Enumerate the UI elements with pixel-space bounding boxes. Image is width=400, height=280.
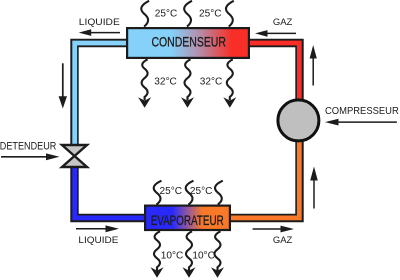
flow arrow: liquid out of condenser (top left, points left) bbox=[79, 29, 120, 36]
flow arrow: detendeur pointer (points right) bbox=[1, 153, 60, 160]
svg-text:EVAPORATEUR: EVAPORATEUR bbox=[151, 212, 224, 228]
wire: liquid line condenser to expansion valve (light blue) bbox=[75, 43, 129, 150]
value label 25°C condenser air-in left bbox=[155, 9, 178, 20]
flow arrow: gas into condenser (top right, points left) bbox=[255, 30, 296, 37]
svg-text:LIQUIDE: LIQUIDE bbox=[79, 17, 120, 28]
heat flow squiggle: condenser air-in middle bbox=[184, 1, 192, 27]
value label 32°C condenser air-out right bbox=[200, 77, 223, 88]
flow arrow: up right pipe below compressor bbox=[310, 167, 318, 209]
compressor COMPRESSEUR (circle symbol) bbox=[278, 100, 319, 141]
label LIQUIDE (top) bbox=[79, 17, 120, 28]
value label 25°C condenser air-in right bbox=[199, 9, 222, 20]
svg-text:10°C: 10°C bbox=[192, 250, 215, 261]
heat flow arrow: evaporator air-out right bbox=[211, 231, 224, 277]
label DETENDEUR bbox=[0, 141, 56, 153]
heat flow squiggle: condenser air-in right bbox=[226, 1, 234, 27]
svg-text:COMPRESSEUR: COMPRESSEUR bbox=[325, 106, 399, 117]
wire: expanded liquid line valve to evaporator (dark blue) bbox=[75, 162, 147, 218]
heat flow squiggle: condenser air-in left bbox=[141, 1, 149, 27]
flow arrow: compresseur pointer (points left) bbox=[325, 119, 397, 126]
label GAZ (bottom) bbox=[273, 235, 293, 246]
svg-text:25°C: 25°C bbox=[199, 9, 222, 20]
heat flow arrow: evaporator air-out left bbox=[151, 231, 164, 277]
expansion valve DETENDEUR (bowtie symbol) bbox=[62, 145, 87, 167]
svg-text:GAZ: GAZ bbox=[273, 17, 293, 28]
heat flow arrow: evaporator air-out middle bbox=[183, 231, 196, 277]
svg-text:25°C: 25°C bbox=[160, 186, 183, 197]
flow arrow: up right pipe above compressor bbox=[310, 45, 317, 86]
svg-text:GAZ: GAZ bbox=[273, 235, 293, 246]
svg-text:25°C: 25°C bbox=[155, 9, 178, 20]
label COMPRESSEUR bbox=[325, 106, 399, 117]
svg-text:32°C: 32°C bbox=[154, 77, 177, 88]
heat flow squiggle: evaporator air-in left bbox=[154, 181, 162, 205]
label LIQUIDE (bottom) bbox=[78, 235, 118, 246]
evaporator heat exchanger EVAPORATEUR bbox=[145, 206, 230, 230]
flow arrow: liquid into evaporator (bottom left, points right) bbox=[76, 225, 119, 232]
heat flow squiggle: evaporator air-in right bbox=[215, 181, 223, 205]
flow arrow: down left pipe bbox=[59, 63, 67, 108]
label GAZ (top) bbox=[273, 17, 293, 28]
svg-text:CONDENSEUR: CONDENSEUR bbox=[151, 34, 226, 50]
svg-text:LIQUIDE: LIQUIDE bbox=[78, 235, 118, 246]
heat flow arrow: condenser air-out left bbox=[138, 59, 151, 108]
heat flow squiggle: evaporator air-in middle bbox=[186, 181, 194, 205]
flow arrow: gas out of evaporator (bottom right, points right) bbox=[253, 226, 294, 233]
value label 25°C evaporator air-in right bbox=[190, 186, 213, 197]
heat flow arrow: condenser air-out middle bbox=[181, 59, 194, 108]
value label 10°C evaporator air-out left bbox=[161, 250, 184, 261]
value label 32°C condenser air-out left bbox=[154, 77, 177, 88]
condenser heat exchanger CONDENSEUR bbox=[127, 28, 249, 58]
wire: suction gas line evaporator to compressor (orange) bbox=[229, 140, 300, 218]
svg-text:32°C: 32°C bbox=[200, 77, 223, 88]
svg-text:10°C: 10°C bbox=[161, 250, 184, 261]
wire: hot gas line compressor to condenser (red) bbox=[248, 43, 300, 100]
svg-text:25°C: 25°C bbox=[190, 186, 213, 197]
value label 10°C evaporator air-out right bbox=[192, 250, 215, 261]
svg-text:DETENDEUR: DETENDEUR bbox=[0, 141, 56, 153]
heat flow arrow: condenser air-out right bbox=[223, 59, 236, 108]
value label 25°C evaporator air-in left bbox=[160, 186, 183, 197]
